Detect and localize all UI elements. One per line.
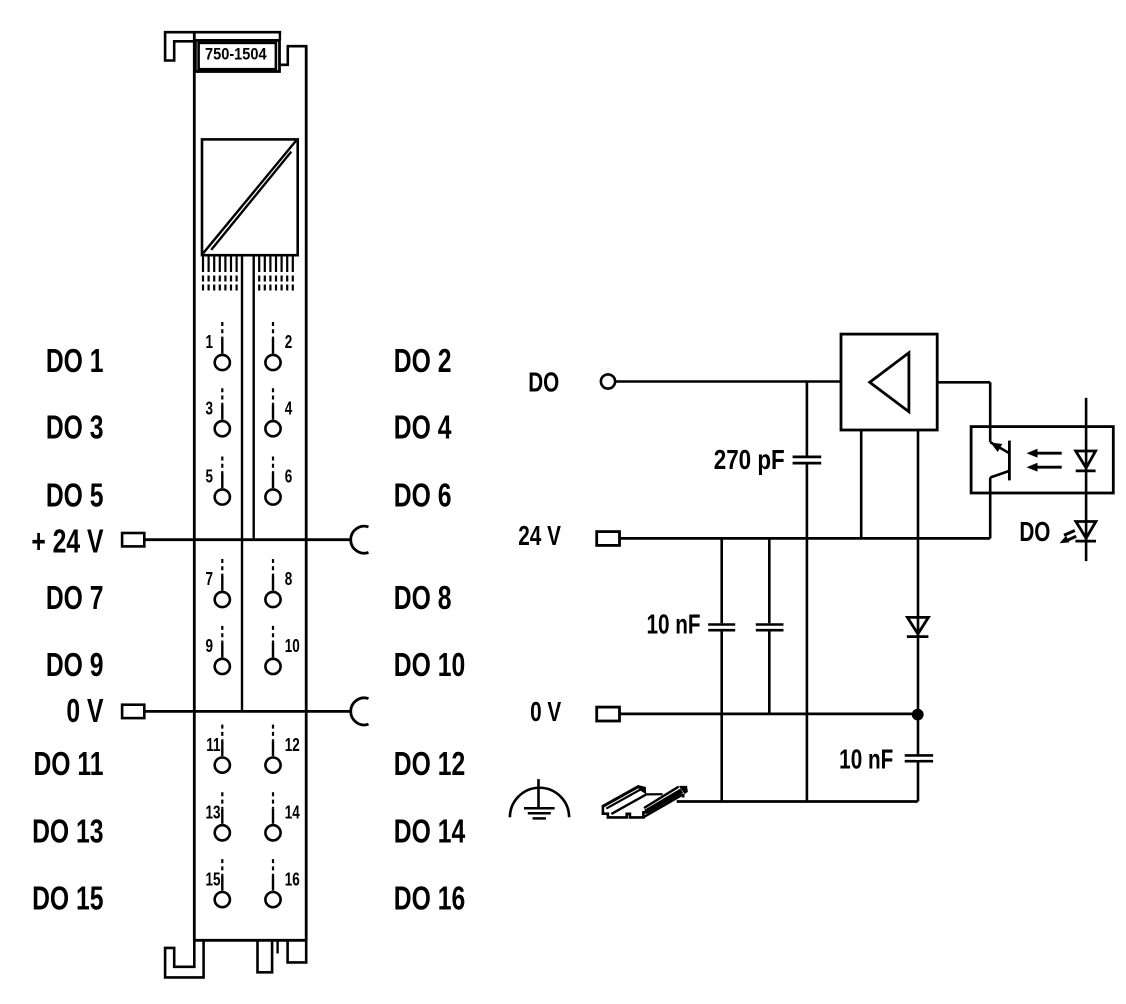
svg-text:DO: DO — [1019, 517, 1050, 548]
svg-text:1: 1 — [206, 333, 214, 352]
svg-text:DO 4: DO 4 — [394, 409, 452, 447]
svg-text:4: 4 — [285, 400, 293, 419]
svg-text:DO 14: DO 14 — [394, 813, 466, 851]
svg-text:DO 5: DO 5 — [46, 477, 104, 515]
svg-text:DO: DO — [528, 368, 559, 399]
svg-text:750-1504: 750-1504 — [205, 45, 267, 63]
svg-text:3: 3 — [206, 400, 214, 419]
svg-text:10: 10 — [285, 637, 300, 656]
svg-text:13: 13 — [206, 804, 221, 823]
svg-text:10 nF: 10 nF — [646, 610, 700, 641]
svg-text:0 V: 0 V — [66, 693, 103, 731]
svg-text:24 V: 24 V — [518, 521, 561, 552]
svg-text:DO 16: DO 16 — [394, 880, 465, 918]
svg-text:6: 6 — [285, 468, 293, 487]
svg-text:DO 10: DO 10 — [394, 647, 465, 685]
svg-text:7: 7 — [206, 570, 214, 589]
svg-text:9: 9 — [206, 637, 214, 656]
svg-text:16: 16 — [285, 871, 300, 890]
svg-text:DO 3: DO 3 — [46, 409, 104, 447]
svg-text:10 nF: 10 nF — [839, 745, 893, 776]
svg-text:DO 1: DO 1 — [46, 343, 104, 381]
svg-text:15: 15 — [206, 871, 221, 890]
svg-text:DO 12: DO 12 — [394, 745, 465, 783]
svg-text:11: 11 — [206, 736, 220, 755]
svg-text:12: 12 — [285, 736, 300, 755]
svg-text:8: 8 — [285, 570, 293, 589]
svg-text:DO 7: DO 7 — [46, 580, 104, 618]
svg-text:DO 2: DO 2 — [394, 343, 452, 381]
svg-text:DO 13: DO 13 — [32, 813, 103, 851]
svg-text:DO 11: DO 11 — [33, 745, 103, 783]
svg-text:14: 14 — [285, 804, 300, 823]
svg-text:DO 9: DO 9 — [46, 647, 104, 685]
svg-text:+ 24 V: + 24 V — [31, 523, 103, 561]
svg-text:2: 2 — [285, 333, 293, 352]
svg-text:DO 6: DO 6 — [394, 477, 452, 515]
svg-text:5: 5 — [206, 468, 214, 487]
svg-text:DO 8: DO 8 — [394, 580, 452, 618]
svg-text:0 V: 0 V — [530, 697, 562, 728]
svg-text:270 pF: 270 pF — [714, 445, 785, 476]
svg-text:DO 15: DO 15 — [32, 880, 103, 918]
